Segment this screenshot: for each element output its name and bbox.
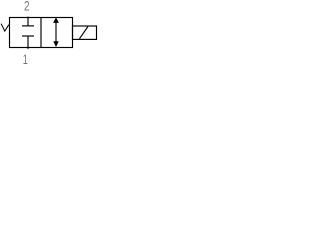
flow path arrowhead down	[53, 41, 58, 47]
lever diagonal	[80, 26, 89, 38]
flow path (right box): vertical line	[55, 20, 57, 44]
flow path arrowhead up	[53, 17, 59, 23]
svg-text:1: 1	[23, 51, 28, 65]
svg-text:2: 2	[24, 0, 30, 14]
blocked port 1 (left box): stem	[27, 36, 29, 49]
lever actuator box (right)	[73, 26, 97, 39]
blocked port 2 (left box): crossbar	[22, 25, 34, 27]
position divider	[40, 18, 42, 48]
blocked port 1 (left box): crossbar	[22, 35, 34, 37]
return spring (left)	[1, 24, 9, 31]
valve body (two position boxes)	[10, 18, 73, 48]
blocked port 2 (left box): stem	[27, 17, 29, 26]
